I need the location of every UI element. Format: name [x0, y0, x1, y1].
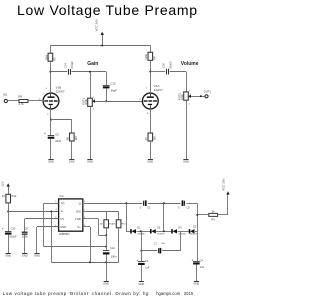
ground (POT1)	[87, 159, 92, 161]
svg-text:56pF: 56pF	[111, 89, 117, 93]
wire V1A cathode down	[150, 109, 152, 133]
diode D4 1N4006	[172, 227, 187, 236]
resistor R3 1k	[209, 209, 218, 221]
diode D3 1N4006	[151, 227, 166, 236]
wire rail tap to diode row	[126, 203, 128, 231]
wire C12 to ground	[106, 255, 108, 282]
wire POT1 bottom to ground	[90, 106, 92, 159]
svg-text:+: +	[192, 258, 194, 262]
svg-text:C15: C15	[110, 81, 115, 85]
potentiometer POT2 100k (Volume)	[177, 90, 192, 105]
svg-text:+: +	[44, 132, 46, 136]
svg-text:470pF: 470pF	[70, 61, 74, 69]
svg-text:TR: TR	[61, 201, 65, 205]
svg-text:C8: C8	[24, 227, 28, 231]
wire 12V node down	[51, 212, 53, 263]
svg-text:GND: GND	[5, 254, 11, 258]
wire POT1 wiper to V1A grid	[95, 98, 142, 101]
wire R6 to ground	[71, 141, 73, 159]
svg-text:LM555N: LM555N	[59, 232, 70, 236]
svg-text:Low voltage tube preamp 'Brill: Low voltage tube preamp 'Brillant' chann…	[3, 291, 149, 296]
ground (R6)	[69, 159, 74, 161]
node plate V1B wire	[50, 71, 67, 73]
wire TR pin loop	[44, 203, 108, 247]
wire R12 to 12V node	[7, 203, 9, 213]
svg-text:Low Voltage Tube Preamp: Low Voltage Tube Preamp	[17, 2, 198, 18]
svg-text:C12: C12	[110, 246, 115, 250]
svg-text:hgamps.com 2015: hgamps.com 2015	[156, 291, 194, 296]
wire C6 to ground	[141, 265, 143, 282]
capacitor C12 100n (timing)	[103, 246, 117, 259]
wire DIS to R11 top	[106, 212, 108, 220]
wire C9 to ground	[50, 139, 52, 160]
wire 12V node to IC R pin	[8, 209, 58, 212]
wire R9 to V1B grid	[28, 100, 43, 102]
wire POT2 bottom to ground	[186, 100, 188, 159]
pin 3 Q stub	[83, 201, 87, 203]
wire cathode to C9	[50, 120, 52, 136]
capacitor C8 100n (CV bypass)	[22, 227, 29, 239]
svg-text:GND: GND	[87, 159, 93, 163]
wire D4 junction down	[180, 231, 182, 250]
capacitor C13 100uF (reservoir)	[2, 226, 17, 238]
svg-text:+: +	[2, 227, 4, 231]
tube V1B 12AX7	[39, 86, 65, 116]
wire rail right corner down	[196, 203, 198, 231]
svg-text:V+: V+	[77, 225, 81, 229]
resistor R5 100k (V1B plate load)	[44, 53, 56, 61]
wire rail to R5	[50, 46, 52, 54]
wire C8 to ground	[24, 235, 26, 254]
svg-text:+: +	[137, 259, 139, 263]
ground (IC GND pin)	[34, 253, 39, 255]
svg-text:R8: R8	[153, 56, 157, 60]
svg-text:100k: 100k	[44, 54, 48, 60]
svg-text:C16: C16	[161, 63, 165, 68]
wire rail mid tap down	[163, 203, 165, 231]
wire 12V node to C13	[8, 212, 10, 232]
svg-text:R3: R3	[212, 218, 216, 222]
jack IN1	[3, 93, 8, 103]
wire R5 to plate node	[49, 61, 51, 73]
wire plate node to tube V1B	[50, 72, 52, 94]
svg-text:GND: GND	[34, 254, 40, 258]
wire gain node down to POT1	[90, 72, 92, 98]
capacitor C7 1uF (pump series)	[154, 243, 166, 254]
wire D1 junction down	[140, 231, 142, 251]
svg-text:Gain: Gain	[87, 61, 98, 67]
wire IN1 to R9	[7, 100, 19, 102]
svg-text:IC2: IC2	[59, 194, 64, 198]
svg-text:1k5: 1k5	[74, 136, 78, 141]
wire rail to R8	[150, 46, 152, 53]
wire gain node to C15	[106, 72, 108, 85]
wire CV pin to C8	[25, 218, 59, 220]
capacitor C9 22uF (cathode bypass)	[44, 132, 62, 143]
svg-text:GND: GND	[22, 254, 28, 258]
wire D1 junction to C6	[141, 251, 143, 262]
jack OUT1	[204, 89, 212, 98]
capacitor C16 100nF (coupling)	[161, 61, 172, 74]
svg-text:GND: GND	[183, 159, 189, 163]
wire pump cap run	[141, 250, 157, 252]
svg-text:1uF: 1uF	[161, 243, 165, 245]
svg-text:1N4006: 1N4006	[190, 234, 198, 236]
diode D2 1N4006	[190, 226, 198, 236]
svg-text:100nF: 100nF	[168, 61, 172, 69]
resistor R9 4.7k (grid stopper)	[18, 95, 28, 106]
tube V1A 12AX7	[142, 84, 163, 115]
svg-text:R: R	[61, 210, 63, 214]
resistor R10 47k	[112, 220, 126, 228]
wire cathode node right	[51, 119, 72, 121]
svg-text:12V: 12V	[0, 181, 4, 186]
svg-text:100k: 100k	[180, 94, 184, 100]
svg-text:1uF: 1uF	[200, 266, 205, 269]
svg-text:100uF: 100uF	[9, 234, 17, 238]
svg-text:VCC 30V: VCC 30V	[222, 178, 226, 191]
svg-text:GND: GND	[69, 159, 75, 163]
svg-text:GND: GND	[147, 159, 153, 163]
wire diode row	[126, 230, 197, 232]
svg-text:GND: GND	[194, 282, 200, 286]
svg-text:C14: C14	[63, 63, 67, 68]
svg-text:12AX7: 12AX7	[56, 89, 65, 93]
resistor R8 100k (V1A plate load)	[144, 52, 156, 60]
svg-text:22uF: 22uF	[55, 139, 61, 143]
svg-text:100n: 100n	[111, 255, 117, 259]
wire R7 to ground	[150, 141, 152, 159]
svg-text:GND: GND	[139, 282, 145, 286]
ground (R7)	[148, 159, 153, 161]
wire DIS to resistors	[87, 211, 119, 213]
ground (C12)	[104, 281, 109, 283]
svg-text:C9: C9	[55, 132, 59, 136]
svg-text:12AX7: 12AX7	[154, 88, 163, 92]
svg-text:Volume: Volume	[181, 61, 199, 67]
svg-text:100k: 100k	[144, 53, 148, 59]
wire V+ to 12V run	[87, 226, 90, 228]
svg-text:R7: R7	[144, 137, 148, 141]
capacitor C5 1uF (pump)	[178, 200, 190, 209]
pin 5 CV stub	[55, 217, 59, 219]
capacitor C6 1uF (filter)	[137, 259, 150, 270]
resistor R11 4k7	[100, 220, 114, 228]
resistor R12 10 (supply filter)	[2, 194, 17, 203]
resistor R6 1k5 (V1B cathode)	[66, 133, 78, 141]
svg-text:DIS: DIS	[76, 210, 81, 214]
svg-text:4.7k: 4.7k	[18, 102, 24, 106]
pin 8 V+ stub	[83, 225, 87, 227]
svg-text:GND: GND	[48, 159, 54, 163]
svg-text:GND: GND	[60, 225, 66, 229]
potentiometer POT1 470k (Gain)	[81, 96, 96, 110]
svg-text:R12: R12	[12, 194, 17, 198]
wire C16 to volume pot	[170, 71, 186, 73]
wire R11 bottom to THR node	[105, 228, 107, 236]
wire Q output rail	[87, 202, 198, 204]
svg-text:GND: GND	[103, 281, 109, 285]
wire 12V bottom run	[51, 261, 118, 263]
power 12V input	[0, 181, 10, 194]
pin 6 THR stub	[83, 217, 87, 219]
power VCC 30V (supply output)	[222, 178, 230, 194]
wire HV node to R3	[197, 214, 209, 216]
wire R3 to VCC 30V arrow	[218, 214, 228, 216]
wire C13 to ground	[8, 235, 10, 254]
capacitor C14 470pF (bright cap)	[63, 61, 74, 75]
svg-text:THR: THR	[75, 217, 81, 221]
svg-text:1uF: 1uF	[145, 266, 150, 269]
ground (C8)	[22, 253, 27, 255]
wire THR node to C12	[106, 235, 108, 251]
node plate V1A wire	[150, 71, 165, 73]
node VCC30V top rail wire	[50, 45, 150, 47]
wire DIS to R10 top	[118, 212, 120, 220]
svg-text:470k: 470k	[84, 98, 88, 104]
wire R10 bottom to 12V run	[118, 228, 120, 262]
ground (C13)	[6, 253, 11, 255]
wire C15 to wiper node	[105, 88, 107, 102]
wire V1B cathode down	[50, 109, 52, 121]
svg-text:R6: R6	[66, 137, 70, 141]
svg-text:CV: CV	[60, 217, 64, 221]
wire THR to node	[87, 218, 99, 220]
pin 2 TR stub	[55, 201, 59, 203]
svg-text:VCC 30V: VCC 30V	[95, 19, 99, 32]
ground (POT2)	[183, 159, 188, 161]
wire plate node to tube V1A	[150, 72, 152, 94]
op-amp U IC2 LM555N timer	[59, 194, 83, 236]
wire cathode node to R6	[71, 120, 73, 133]
resistor R7 1k5 (V1A cathode)	[144, 133, 156, 141]
pin 1 GND stub	[55, 225, 59, 227]
wire HV node down to C4	[197, 231, 199, 261]
capacitor C3 1uF (pump)	[140, 200, 151, 209]
svg-text:OUT1: OUT1	[204, 89, 212, 93]
svg-text:1k5: 1k5	[153, 136, 157, 141]
svg-text:100n: 100n	[22, 234, 28, 238]
wire POT2 wiper to OUT1	[191, 95, 205, 97]
pin 7 DIS stub	[83, 210, 87, 212]
svg-text:1N4006: 1N4006	[157, 234, 165, 236]
svg-text:R5: R5	[53, 57, 57, 61]
svg-text:1N4006: 1N4006	[178, 234, 186, 236]
ground (C4)	[194, 281, 199, 283]
svg-text:R9: R9	[18, 95, 22, 99]
ground (C6)	[139, 281, 144, 283]
wire C4 to ground	[196, 265, 198, 282]
svg-text:C13: C13	[11, 226, 16, 230]
capacitor C15 56pF	[103, 81, 117, 92]
wire GND pin to ground	[37, 226, 59, 228]
ground (C9)	[48, 159, 53, 161]
diode D1 1N4006	[131, 227, 146, 236]
power VCC 30V (top)	[95, 19, 104, 47]
wire R8 to plate node	[149, 60, 151, 72]
svg-text:IN1: IN1	[3, 93, 8, 97]
wire C14 to gain pot top	[72, 71, 107, 73]
capacitor C4 1uF (output filter)	[192, 258, 205, 269]
